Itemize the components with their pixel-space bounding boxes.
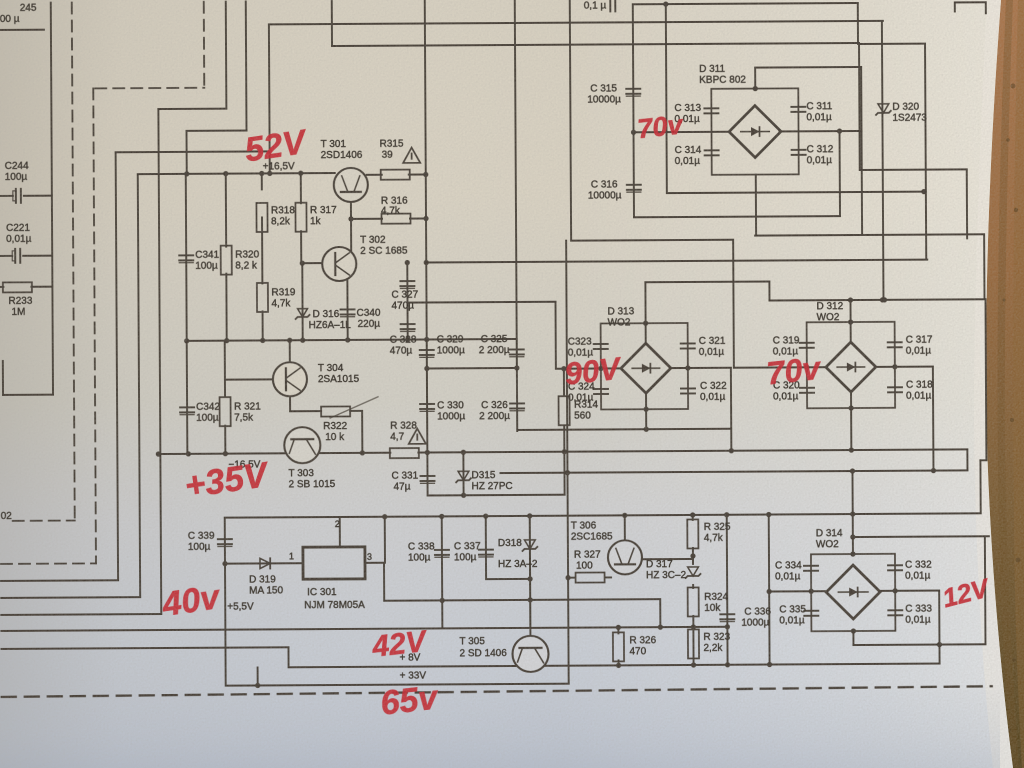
junction dot y5 (663, 1, 668, 6)
wire C342 vertical (186, 341, 189, 454)
wire C325 link (516, 339, 518, 368)
capacitor C328 (401, 324, 415, 331)
wire link x770 (768, 282, 770, 301)
capacitor C319 (800, 343, 814, 348)
resistor R318 (256, 203, 267, 232)
wire C244 lead (0, 195, 13, 197)
junction dot C336 bottom (725, 662, 730, 667)
wire T302 emitter drop (346, 280, 348, 340)
capacitor C313 (704, 108, 718, 113)
wire R318-R319 link (261, 217, 263, 283)
wire y600 drop (659, 599, 661, 627)
capacitor C337 (479, 550, 493, 557)
wire D312 bottom feed (850, 392, 852, 450)
zener diode D316 (296, 309, 310, 319)
resistor R319 (257, 283, 268, 312)
transistor T302 (322, 247, 356, 281)
transistor T303 (284, 427, 320, 463)
wire IC301 pin2 stub (339, 517, 341, 547)
wire C336 chain (726, 515, 729, 665)
wire C221 lead (0, 255, 12, 257)
wire bus y628 left (1, 627, 727, 631)
junction dot D320 bottom (882, 297, 887, 302)
wire D314 feed x768 (768, 515, 771, 665)
wire D318 drop (529, 516, 532, 628)
junction dots y262 (424, 260, 429, 265)
wire D316 chain (301, 263, 303, 340)
wire D314 right line (879, 590, 939, 592)
wire mid bus y339 (187, 339, 517, 341)
capacitor C324 (594, 389, 608, 394)
wire left column stub (2, 361, 4, 395)
wire bus A vertical from top (225, 2, 228, 109)
zener diode D317 (686, 567, 701, 578)
wire R317 bottom lead (300, 231, 302, 263)
junction dots on +16.5V rail (184, 171, 303, 177)
wire R323 leads (692, 627, 694, 665)
capacitor C244 (13, 189, 21, 203)
wire T306 collector (624, 515, 626, 539)
wire C221 to node (23, 255, 52, 257)
diode D319 (260, 558, 270, 568)
resistor R317 (295, 203, 306, 232)
wire drop x861b (858, 44, 861, 170)
wire D311 outer bottom (755, 234, 984, 235)
wire bus y218 (634, 216, 840, 217)
junction dots chain x692 (691, 624, 696, 667)
wire D312 left line (734, 366, 827, 369)
wire dashed bus D2 horizontal (13, 520, 75, 522)
wire bus y430 (518, 429, 731, 430)
wire D320 chain (882, 21, 884, 300)
bridge rectifier D313 (601, 323, 688, 409)
paper edge bright strip (974, 0, 1013, 768)
wire R318 top lead (261, 173, 263, 189)
capacitor C326 (510, 403, 524, 410)
wire D312 top feed (849, 300, 851, 343)
wire -16.5V rail right of R328 (418, 449, 967, 452)
bridge rectifier D311 (711, 88, 798, 174)
wire main vertical x427 (425, 0, 427, 430)
wire D311 outer top (755, 66, 861, 69)
wire bus y302 right (769, 299, 985, 300)
wire C341 vertical (185, 174, 188, 341)
warning triangle 1 (403, 148, 420, 163)
transistor T305 (512, 636, 548, 672)
capacitor C335 (804, 611, 818, 616)
wire D313 top feed (644, 282, 646, 344)
wire bus y600 (384, 599, 660, 601)
wire bus y302 left (407, 301, 555, 304)
wire D313 bottom feed (645, 393, 647, 429)
resistor R322 (321, 406, 350, 416)
wire bus A jog (158, 108, 226, 110)
wire 12V return (984, 536, 987, 644)
wire bus y262 (426, 260, 927, 263)
junction dots y628 (616, 624, 730, 630)
capacitor C329 (420, 350, 434, 357)
zener diode D318 (522, 540, 537, 551)
junction dot R326 bottom (616, 663, 621, 668)
capacitor 0.1u series (610, 0, 615, 11)
junction dots D314 left (767, 589, 814, 594)
wire right edge drop3 (979, 460, 981, 513)
junction dot D315 bottom (461, 493, 466, 498)
wire bus y45 (332, 43, 859, 46)
wire bus C top horizontal (269, 21, 883, 25)
resistor R325 (687, 519, 698, 548)
wire bus y516 (225, 513, 981, 517)
wire -16.5V rail (158, 453, 390, 454)
wire C330 link (426, 368, 428, 452)
resistor R321 (220, 397, 231, 426)
wire D312 right line (875, 366, 933, 368)
junction dot y194 (921, 189, 926, 194)
wire 12V top line (853, 535, 989, 538)
wire R327 left (568, 577, 575, 579)
bridge rectifier D312 (807, 322, 895, 409)
wire D313 left line (556, 367, 622, 369)
wire R324 bottom lead (692, 616, 694, 627)
junction dots D312 (804, 319, 898, 411)
wire T302 collector (350, 219, 352, 252)
wire D311 left line (634, 131, 730, 134)
junction dot C327 top (405, 260, 410, 265)
wire D312 left feed (732, 240, 735, 368)
capacitor C332 (888, 565, 902, 570)
capacitor C333 (888, 610, 902, 615)
junction dot T304 collector (287, 338, 292, 343)
wire D319 line (225, 562, 303, 564)
wire C339 chain upper (224, 518, 226, 564)
wire y684 step (257, 667, 259, 685)
zener diode D320 (876, 104, 891, 115)
resistor R324 (688, 587, 699, 616)
wire y452-y473 link (966, 449, 968, 470)
wire T304 emitter (289, 396, 291, 411)
wire +16.5V rail (138, 173, 335, 174)
warning triangle 2 (409, 428, 426, 443)
wire x383 rise (384, 517, 386, 563)
junction dot D314 right (893, 588, 898, 593)
transistor T306 (608, 540, 642, 574)
wire T305 collector (529, 516, 532, 637)
wire T301 to R315 (367, 174, 382, 176)
wire D311 bottom feed (755, 175, 757, 236)
wire D314 top feed (851, 471, 853, 555)
wire dashed bus D1 vertical upper (203, 2, 205, 88)
wire C337 drop (485, 516, 487, 579)
wire bus E exit left (1, 579, 118, 582)
resistor R326 (613, 632, 624, 661)
wire rise x841 (839, 131, 841, 216)
wire R320 bottom lead (225, 274, 227, 341)
wire bus G vertical x567 (566, 241, 569, 684)
junction dots D314 top (850, 534, 855, 556)
capacitor C336 (720, 614, 734, 621)
wire vertical x572 (570, 0, 571, 241)
resistor R314 (559, 396, 570, 425)
junction dot R327 (565, 575, 570, 580)
wire C338 drop (441, 516, 444, 628)
capacitor C323 (594, 344, 608, 349)
wire R314 bottom lead (563, 427, 565, 495)
wire bus y194 (667, 192, 926, 193)
wire bus A exit left (1, 613, 161, 616)
wire D314 bottom feed (852, 631, 854, 645)
capacitor C327 (400, 281, 414, 288)
wire right edge drop x985 (983, 234, 985, 299)
wire R315 to node (409, 173, 426, 175)
wire R321 bottom lead (224, 426, 226, 454)
wire T304 base (225, 378, 273, 380)
junction dots y368 (424, 365, 519, 371)
wire main vertical x517 (515, 0, 517, 431)
wire bus y368 (427, 367, 517, 370)
wire T304 base feed (224, 341, 226, 380)
junction dot base node (300, 261, 305, 266)
wire R325-D317 (692, 548, 694, 564)
junction dots y473 (565, 468, 936, 475)
wire jog right edge (980, 459, 986, 461)
capacitor C318 (888, 387, 902, 392)
wire dashed bus D1 vertical long (93, 88, 96, 563)
wire T304 to R322 (290, 410, 321, 412)
wire left column net (51, 3, 53, 395)
wire bus y495 (428, 494, 565, 497)
wire bus F vertical (138, 174, 140, 597)
wire C331 drop (426, 452, 428, 495)
resistor R320 (221, 246, 232, 275)
junction dots y666 (767, 662, 772, 667)
capacitor C331 (420, 476, 434, 483)
wire D311 top feed (754, 68, 756, 89)
junction dots y516 (382, 511, 855, 519)
wire C245 lead top-left (0, 29, 44, 31)
wire bus y666 (289, 664, 940, 668)
wire D313 right line (670, 367, 731, 369)
wire bus E horizontal y150 (116, 150, 270, 153)
transistor T301 (334, 168, 368, 202)
capacitor C338 (435, 550, 449, 557)
wire R319 bottom lead (262, 311, 264, 340)
wire drop x861a (857, 3, 859, 44)
capacitor C339 (218, 539, 232, 546)
junction dots -16.5V rail (156, 447, 854, 456)
capacitor C312 (792, 150, 806, 155)
subtle page shading bottom (0, 690, 1000, 768)
junction dots on mid bus (184, 337, 429, 344)
transistor T304 (273, 362, 307, 396)
wire T302 base (301, 262, 322, 264)
junction dots D313 (561, 320, 691, 412)
wire dashed bus D2 vertical (72, 3, 75, 521)
wire left column to edge (3, 394, 53, 396)
capacitor C334 (804, 566, 818, 571)
wire dashed bus D1 horizontal (95, 87, 204, 90)
wire R325 top lead (692, 515, 694, 520)
wire bus B jog (187, 130, 247, 132)
resistor R233 (3, 282, 32, 292)
wire T301 base drop (350, 201, 352, 219)
wire D311 right line (780, 130, 862, 132)
wire top line y5 (633, 3, 858, 4)
wire right edge drop2 (984, 299, 987, 460)
resistor R316 (381, 214, 410, 224)
IC IC301 regulator box (303, 547, 365, 579)
wire bus y473 (500, 470, 967, 473)
capacitor C314 (705, 150, 719, 155)
wire C329 link (426, 339, 428, 368)
junction dots y430 (644, 427, 649, 432)
wire bus y684 (227, 684, 569, 686)
wire bus y241 (571, 239, 733, 242)
wire C327 chain (406, 263, 408, 340)
wire R233 lead (0, 286, 3, 288)
wire D314 right drop (938, 591, 940, 664)
wire base node to R316 (351, 218, 382, 220)
wire R316 to node (410, 217, 426, 219)
wire R327 to T306 (605, 576, 611, 578)
wire y646 step (287, 647, 289, 667)
wire D315 drop (462, 452, 464, 495)
resistor R315 (381, 170, 410, 180)
junction dot C339 (222, 561, 227, 566)
bridge rectifier D314 (811, 554, 895, 631)
wire D312 right drop (932, 367, 935, 471)
wire R326 top lead (617, 627, 619, 633)
resistor R327 (576, 572, 605, 582)
wire C337 to D318 (486, 578, 530, 580)
zener diode D315 (456, 471, 471, 482)
junction dot D311 top (753, 86, 758, 91)
capacitor C315 (626, 89, 640, 96)
wire R321 top lead (224, 380, 226, 397)
capacitor C322 (681, 388, 695, 393)
wire bus y646 (1, 647, 288, 649)
wire top-right corner bracket (955, 2, 986, 13)
capacitor C325 (510, 349, 524, 356)
wire bus y172 right (860, 168, 967, 171)
wire bus y45 drop from top (331, 1, 333, 46)
wire bus y45 ext (859, 43, 923, 45)
wire T304 collector (289, 340, 291, 362)
capacitor C321 (681, 343, 695, 348)
capacitor C341 (179, 255, 193, 262)
wire drop x925 (925, 44, 926, 260)
wood grain streaks (997, 0, 1019, 768)
wire D317-R324 (692, 585, 694, 588)
wire IC301 out drop (383, 563, 385, 601)
wire R326 bottom lead (618, 660, 620, 665)
wire IC301 out (365, 562, 384, 564)
wire C315 chain (633, 4, 634, 217)
capacitor C330 (420, 404, 434, 411)
resistor R328 (390, 448, 419, 458)
junction dots D318 node (439, 576, 532, 603)
capacitor C320 (800, 388, 814, 393)
wire R322 to corner (350, 410, 362, 412)
wire R314 top lead (563, 369, 565, 395)
capacitor C340 (341, 309, 355, 316)
wire bus y283 (645, 281, 769, 284)
capacitor C221 (12, 249, 20, 263)
wire R320 top lead (225, 174, 227, 247)
wood speckles (1003, 84, 1021, 733)
junction dots C315 chain (631, 128, 842, 134)
wire bus E long vertical (116, 152, 118, 580)
wire R322 corner drop (361, 411, 363, 453)
wire bus y647 (853, 643, 985, 646)
wire bus B vertical from top (245, 2, 248, 131)
capacitor C316 (627, 185, 641, 192)
wire bus F exit left (1, 596, 140, 599)
wire D314 left line (769, 590, 827, 592)
wire bus A long vertical (158, 109, 161, 614)
wire R317 top lead (300, 173, 302, 203)
wire bus C drop (268, 24, 271, 173)
junction dot T306 emitter node (690, 553, 695, 558)
capacitor C317 (888, 342, 902, 347)
wire drop x668 (666, 4, 667, 193)
wire C244 to node (24, 195, 52, 197)
wire drop x968 (966, 169, 968, 238)
junction dots R315/R316 node (348, 172, 428, 222)
wire dashed bus D1 exit left (1, 562, 96, 565)
resistor R323 (688, 629, 699, 658)
wire R233 to node (31, 286, 52, 288)
wire C339 chain lower (224, 564, 227, 686)
wire D313 left rise (554, 302, 556, 369)
wire bus B drop to rail (186, 131, 188, 174)
wire D313 right drop (730, 368, 732, 451)
wire dashed schematic border bottom (2, 686, 992, 697)
junction dots y302 (848, 297, 885, 302)
capacitor C311 (791, 107, 805, 112)
wire D311 outer right (860, 67, 863, 235)
wire T306 emitter (642, 558, 693, 560)
junction dot y684 (255, 683, 260, 688)
junction dot D314 bottom (851, 628, 942, 648)
capacitor C342 (180, 407, 194, 414)
pencil mark near R322 (330, 397, 378, 418)
